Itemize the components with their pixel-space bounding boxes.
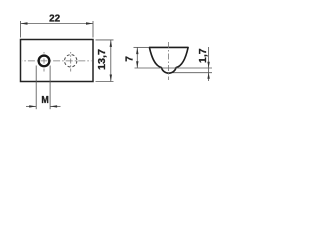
svg-text:7: 7 (124, 56, 135, 62)
svg-text:M: M (41, 95, 48, 106)
svg-text:1,7: 1,7 (198, 48, 209, 63)
horizontal centerline through holes (22, 60, 92, 62)
threaded hole M (thick circle) (39, 56, 50, 67)
side view: vertical centerline (167, 42, 169, 80)
svg-text:22: 22 (49, 13, 61, 24)
dimension M: extension lines (35, 66, 37, 110)
dimension 13,7: arrowheads (110, 40, 112, 47)
vertical centerline right hole (70, 52, 72, 72)
dimension 22: arrowheads (21, 22, 28, 24)
dimension 7: dimension line (136, 47, 138, 68)
dimension 22: dimension line (21, 23, 94, 25)
dimension 1,7: arrowheads (207, 62, 209, 68)
svg-text:13,7: 13,7 (97, 49, 108, 70)
dimension 13,7: extension lines (96, 39, 114, 41)
dimension 22: extension lines (20, 21, 22, 38)
dimension 1,7: dimension line (vertical, arrows outside) (208, 47, 210, 81)
dimension 7: extension line (top) (134, 46, 149, 48)
dimension M: arrowheads (29, 105, 36, 107)
alternate hole position (dashed circle) (65, 55, 77, 67)
side view: bottom tangent line (thin, passes behind ball) (135, 67, 213, 69)
part outline (top view rectangle) (21, 40, 94, 82)
dimension 13,7: dimension line (110, 40, 112, 82)
side view: nut profile with spring ball (thick outline) (149, 47, 188, 73)
dimension M: dimension line segments (arrows outside) (26, 105, 36, 107)
dimension 7: arrowheads (136, 47, 138, 54)
side view: ball lowest point extension line (173, 72, 213, 74)
vertical centerline left hole (43, 52, 45, 72)
